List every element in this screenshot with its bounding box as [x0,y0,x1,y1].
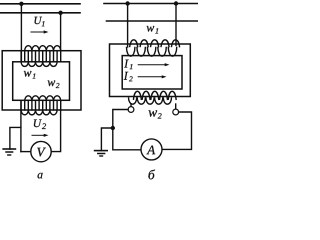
wire from L1 to primary coil [20,4,22,62]
wire into voltmeter [21,151,31,153]
core outer rectangle (left) [2,51,81,110]
junction dot (right bottom) [111,126,115,130]
ground branch wire [10,127,21,149]
label w2 (right) [149,110,162,118]
label U2 [34,119,46,129]
label a [38,173,43,179]
terminal circle left [128,107,134,113]
voltmeter letter V [37,148,46,157]
label I1 [124,60,132,69]
junction dot R1-left [125,1,129,5]
terminal circle right [173,109,179,115]
winding w2 turn verticals [20,101,22,110]
winding w2 loop bowls (right) [129,98,137,104]
winding w2 over-arcs (right) [134,91,142,99]
core inner rectangle (left) [13,62,70,101]
bus line R1 top [104,3,198,5]
wire from R1 to w1 coil right [175,4,177,46]
secondary left wire down [20,101,22,152]
arrow I1 [138,64,165,66]
winding w1 over-arcs [130,40,138,47]
secondary right wire down [51,110,60,152]
label I2 [124,72,133,81]
ground (right diagram) [95,150,108,152]
label w2 (left) [48,80,60,88]
junction dot on L1 [19,2,23,6]
bus line R2 [107,20,198,22]
winding w1 lower arcs [21,62,57,67]
wire from L2 to primary coil [60,13,62,51]
ammeter A1 circle [141,139,162,160]
winding w1 loop bowls [127,47,135,56]
core outer rectangle (right) [110,44,191,97]
junction dot R1-right [174,1,178,5]
ground (left diagram) [3,148,15,150]
label w1 (right) [147,26,159,34]
wire terminal-left to ammeter [113,110,141,150]
stub from w2 right end to terminal [175,104,177,109]
arrow under U1 [31,31,45,33]
stub from w2 left end to terminal [130,104,132,107]
junction dot on L2 [58,11,62,15]
voltmeter V1 circle [31,141,51,161]
core inner rectangle (right) [122,56,182,89]
arrow I2 [138,76,162,78]
winding w2 upper arcs [25,96,61,101]
label U1 [35,17,45,26]
wire terminal-right to ammeter [162,112,191,149]
arrow under U2 [32,134,45,136]
bus line L1 top [0,3,80,5]
winding w1 turn verticals [20,51,22,62]
winding w2 lower arcs [21,110,57,115]
winding w1 upper arcs [25,46,61,51]
bus line L2 [0,12,80,14]
label w1 (left) [24,71,35,79]
wire from R1 to w1 coil left [127,4,129,48]
ammeter letter A [146,146,155,155]
label b [148,170,155,180]
ground branch (right) [101,128,112,151]
